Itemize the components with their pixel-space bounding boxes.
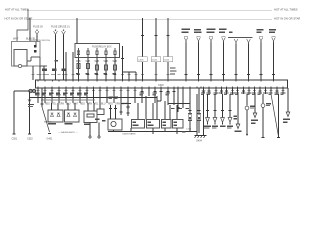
off-page arrow A1 <box>235 94 242 132</box>
svg-text:FUSE/RELAY BOX: FUSE/RELAY BOX <box>92 45 112 48</box>
bus HOT IN ON OR START <box>5 17 303 21</box>
indicator bulb L3 <box>221 94 225 125</box>
ground bus bar G403 <box>195 136 207 143</box>
resistor pack 1 <box>186 114 192 132</box>
wire label blob on C438 wire <box>52 69 57 71</box>
wire from bus2 drop 2 <box>151 18 161 80</box>
wire from bus1 to ignition switch <box>17 9 28 42</box>
wire to ground G402 <box>277 94 280 137</box>
wire horizontal run <box>30 97 157 99</box>
relay R1 <box>132 120 145 129</box>
wire extensions center <box>100 103 131 116</box>
wire label blob on C439 wire <box>62 69 67 71</box>
wire branch B <box>135 72 137 80</box>
wire tick <box>95 74 98 76</box>
connector K1 <box>182 29 191 80</box>
connector C437 <box>33 26 43 42</box>
wire tick <box>121 74 124 76</box>
blower motor M1 <box>108 105 122 130</box>
wire to junction box x66 <box>65 52 67 80</box>
wire branch A <box>128 72 130 80</box>
wire tick <box>77 74 80 76</box>
switch lever wire <box>41 88 54 141</box>
connector K3 <box>207 29 216 80</box>
svg-text:WHT: WHT <box>13 38 19 41</box>
connector C402 pair <box>14 89 36 92</box>
wire to connector C551 <box>12 91 18 141</box>
label bottom right of relays <box>182 131 185 133</box>
off-page arrow A3 <box>283 88 290 123</box>
wires below junction box (right group) <box>204 88 284 94</box>
svg-text:FUSE 31: FUSE 31 <box>60 26 70 29</box>
fuse F5 <box>114 48 117 58</box>
svg-text:G404: G404 <box>196 140 203 143</box>
indicator bulb L4 <box>228 94 232 125</box>
wire ticks right <box>208 90 279 92</box>
svg-text:G401: G401 <box>47 138 54 141</box>
svg-text:C525: C525 <box>164 59 170 61</box>
svg-text:C520: C520 <box>158 84 164 87</box>
relay R4 <box>173 120 184 129</box>
svg-text:W/B: W/B <box>95 60 100 63</box>
wires below junction box (left group) <box>37 88 137 103</box>
connector pair bar <box>228 31 253 37</box>
diode assembly D1 <box>48 103 63 124</box>
wire from switch to junction box 3 <box>39 66 41 80</box>
svg-text:WHT: WHT <box>73 104 79 106</box>
wire to terminal 1 <box>89 123 91 139</box>
wire label row A <box>35 93 88 96</box>
big junction box <box>36 80 288 88</box>
wires from relay row bottoms <box>153 128 197 135</box>
svg-text:BLU: BLU <box>101 104 106 106</box>
svg-text:W/B: W/B <box>76 60 81 63</box>
connector K2 <box>194 29 202 80</box>
resistor pack 2 <box>197 114 201 134</box>
wire labels below box right <box>0 0 1 1</box>
svg-text:W/B: W/B <box>104 60 109 63</box>
wire tick <box>43 74 46 76</box>
svg-text:C525: C525 <box>138 59 144 61</box>
wire bottom run <box>108 128 197 132</box>
svg-text:HOT AT ALL TIMES: HOT AT ALL TIMES <box>274 7 298 11</box>
wire tick <box>113 74 116 76</box>
label GAUGE ASSEMBLY <box>58 131 79 134</box>
svg-text:FUSE 39: FUSE 39 <box>33 26 43 29</box>
wire tick <box>57 74 60 76</box>
connector block C4 <box>95 109 105 121</box>
wire from bus2 drop 1 <box>138 18 148 80</box>
wire to terminal 2 <box>98 123 100 139</box>
relay R2 <box>147 120 160 129</box>
wire ticks left <box>31 74 65 76</box>
wire tick <box>71 74 74 76</box>
fuse output wires with inline fuses <box>76 58 81 81</box>
wire from bus2 to fuse box <box>76 18 78 44</box>
relay R3 <box>162 120 172 129</box>
wire labels mid columns <box>140 92 176 96</box>
svg-text:— GAUGE ASSY —: — GAUGE ASSY — <box>58 131 79 134</box>
bus HOT AT ALL TIMES <box>5 7 298 11</box>
wire label cluster at x170 <box>170 67 177 74</box>
svg-text:HOT IN ON OR START: HOT IN ON OR START <box>5 17 33 21</box>
wire mesh center <box>141 88 201 120</box>
label block SRS <box>234 115 237 119</box>
diode assembly D2 <box>65 103 80 124</box>
svg-text:C741: C741 <box>186 129 192 131</box>
connector C439 <box>60 26 70 81</box>
wire color labels row <box>45 104 128 106</box>
wire right of fuse box <box>121 46 136 80</box>
inline connector x263 <box>261 94 271 137</box>
bulb labels <box>204 126 233 129</box>
wire tick <box>36 74 39 76</box>
svg-text:W/B: W/B <box>113 60 118 63</box>
connector K5 <box>234 39 238 80</box>
connector K6 <box>247 39 251 80</box>
indicator bulb L1 <box>206 94 210 125</box>
svg-text:C551: C551 <box>12 138 18 141</box>
connector C438 <box>51 26 61 81</box>
fuse F3 <box>96 48 99 58</box>
wire tick <box>104 74 107 76</box>
wire tick <box>51 74 54 76</box>
svg-text:DASH HARN: DASH HARN <box>123 133 136 136</box>
svg-text:RED: RED <box>80 104 85 106</box>
svg-text:YEL: YEL <box>94 104 99 106</box>
fuse F2 <box>87 48 90 58</box>
wire tick <box>86 74 89 76</box>
wire label dashes x172-190 <box>171 108 189 109</box>
svg-text:YEL: YEL <box>52 104 57 106</box>
svg-text:GRN: GRN <box>59 104 64 106</box>
off-page arrow A2 <box>251 94 258 124</box>
junction box pin stubs <box>38 80 283 88</box>
wire from bus2 drop 3 <box>163 18 173 80</box>
svg-text:HOT AT ALL TIMES: HOT AT ALL TIMES <box>5 7 29 11</box>
svg-text:HOT IN ON OR START: HOT IN ON OR START <box>274 17 300 21</box>
wires to relay row <box>138 96 177 120</box>
connector K8 <box>269 29 276 80</box>
wire to ground bar 1 <box>196 94 198 135</box>
relay unit A <box>84 103 97 125</box>
wire from switch to junction box 1 <box>42 66 47 80</box>
wire horizontal run 2 <box>41 99 95 101</box>
fuse F4 <box>105 48 108 58</box>
ignition switch S1 <box>12 40 51 68</box>
wire to connector C552 <box>27 91 34 141</box>
fuse F1 <box>77 48 80 58</box>
wire tick <box>166 74 169 76</box>
connector K4 <box>219 29 227 80</box>
wire label row right <box>201 91 286 95</box>
svg-text:C552: C552 <box>27 138 33 141</box>
svg-text:BLU: BLU <box>66 104 71 106</box>
wire tick <box>134 74 137 76</box>
connector K7 <box>257 29 264 80</box>
wire label W/B at x55 <box>55 60 59 61</box>
wire labels above motor <box>109 96 119 99</box>
wire from bus2 to ignition switch <box>29 18 31 42</box>
wire tick <box>141 74 144 76</box>
wire to ground bar 2 <box>203 94 205 135</box>
wire tick <box>154 74 157 76</box>
indicator bulb L2 <box>213 94 217 125</box>
wire from switch to junction box 2 <box>32 66 34 80</box>
inline connector x247 <box>245 94 255 136</box>
wire tick <box>64 74 67 76</box>
wire tick <box>127 74 130 76</box>
diagonal wire <box>271 94 279 137</box>
svg-text:C525: C525 <box>152 59 158 61</box>
wire to junction box x73 <box>72 52 74 80</box>
svg-text:RED: RED <box>45 104 50 106</box>
under-hood fuse/relay box <box>75 44 120 58</box>
svg-text:W/B: W/B <box>86 60 91 63</box>
